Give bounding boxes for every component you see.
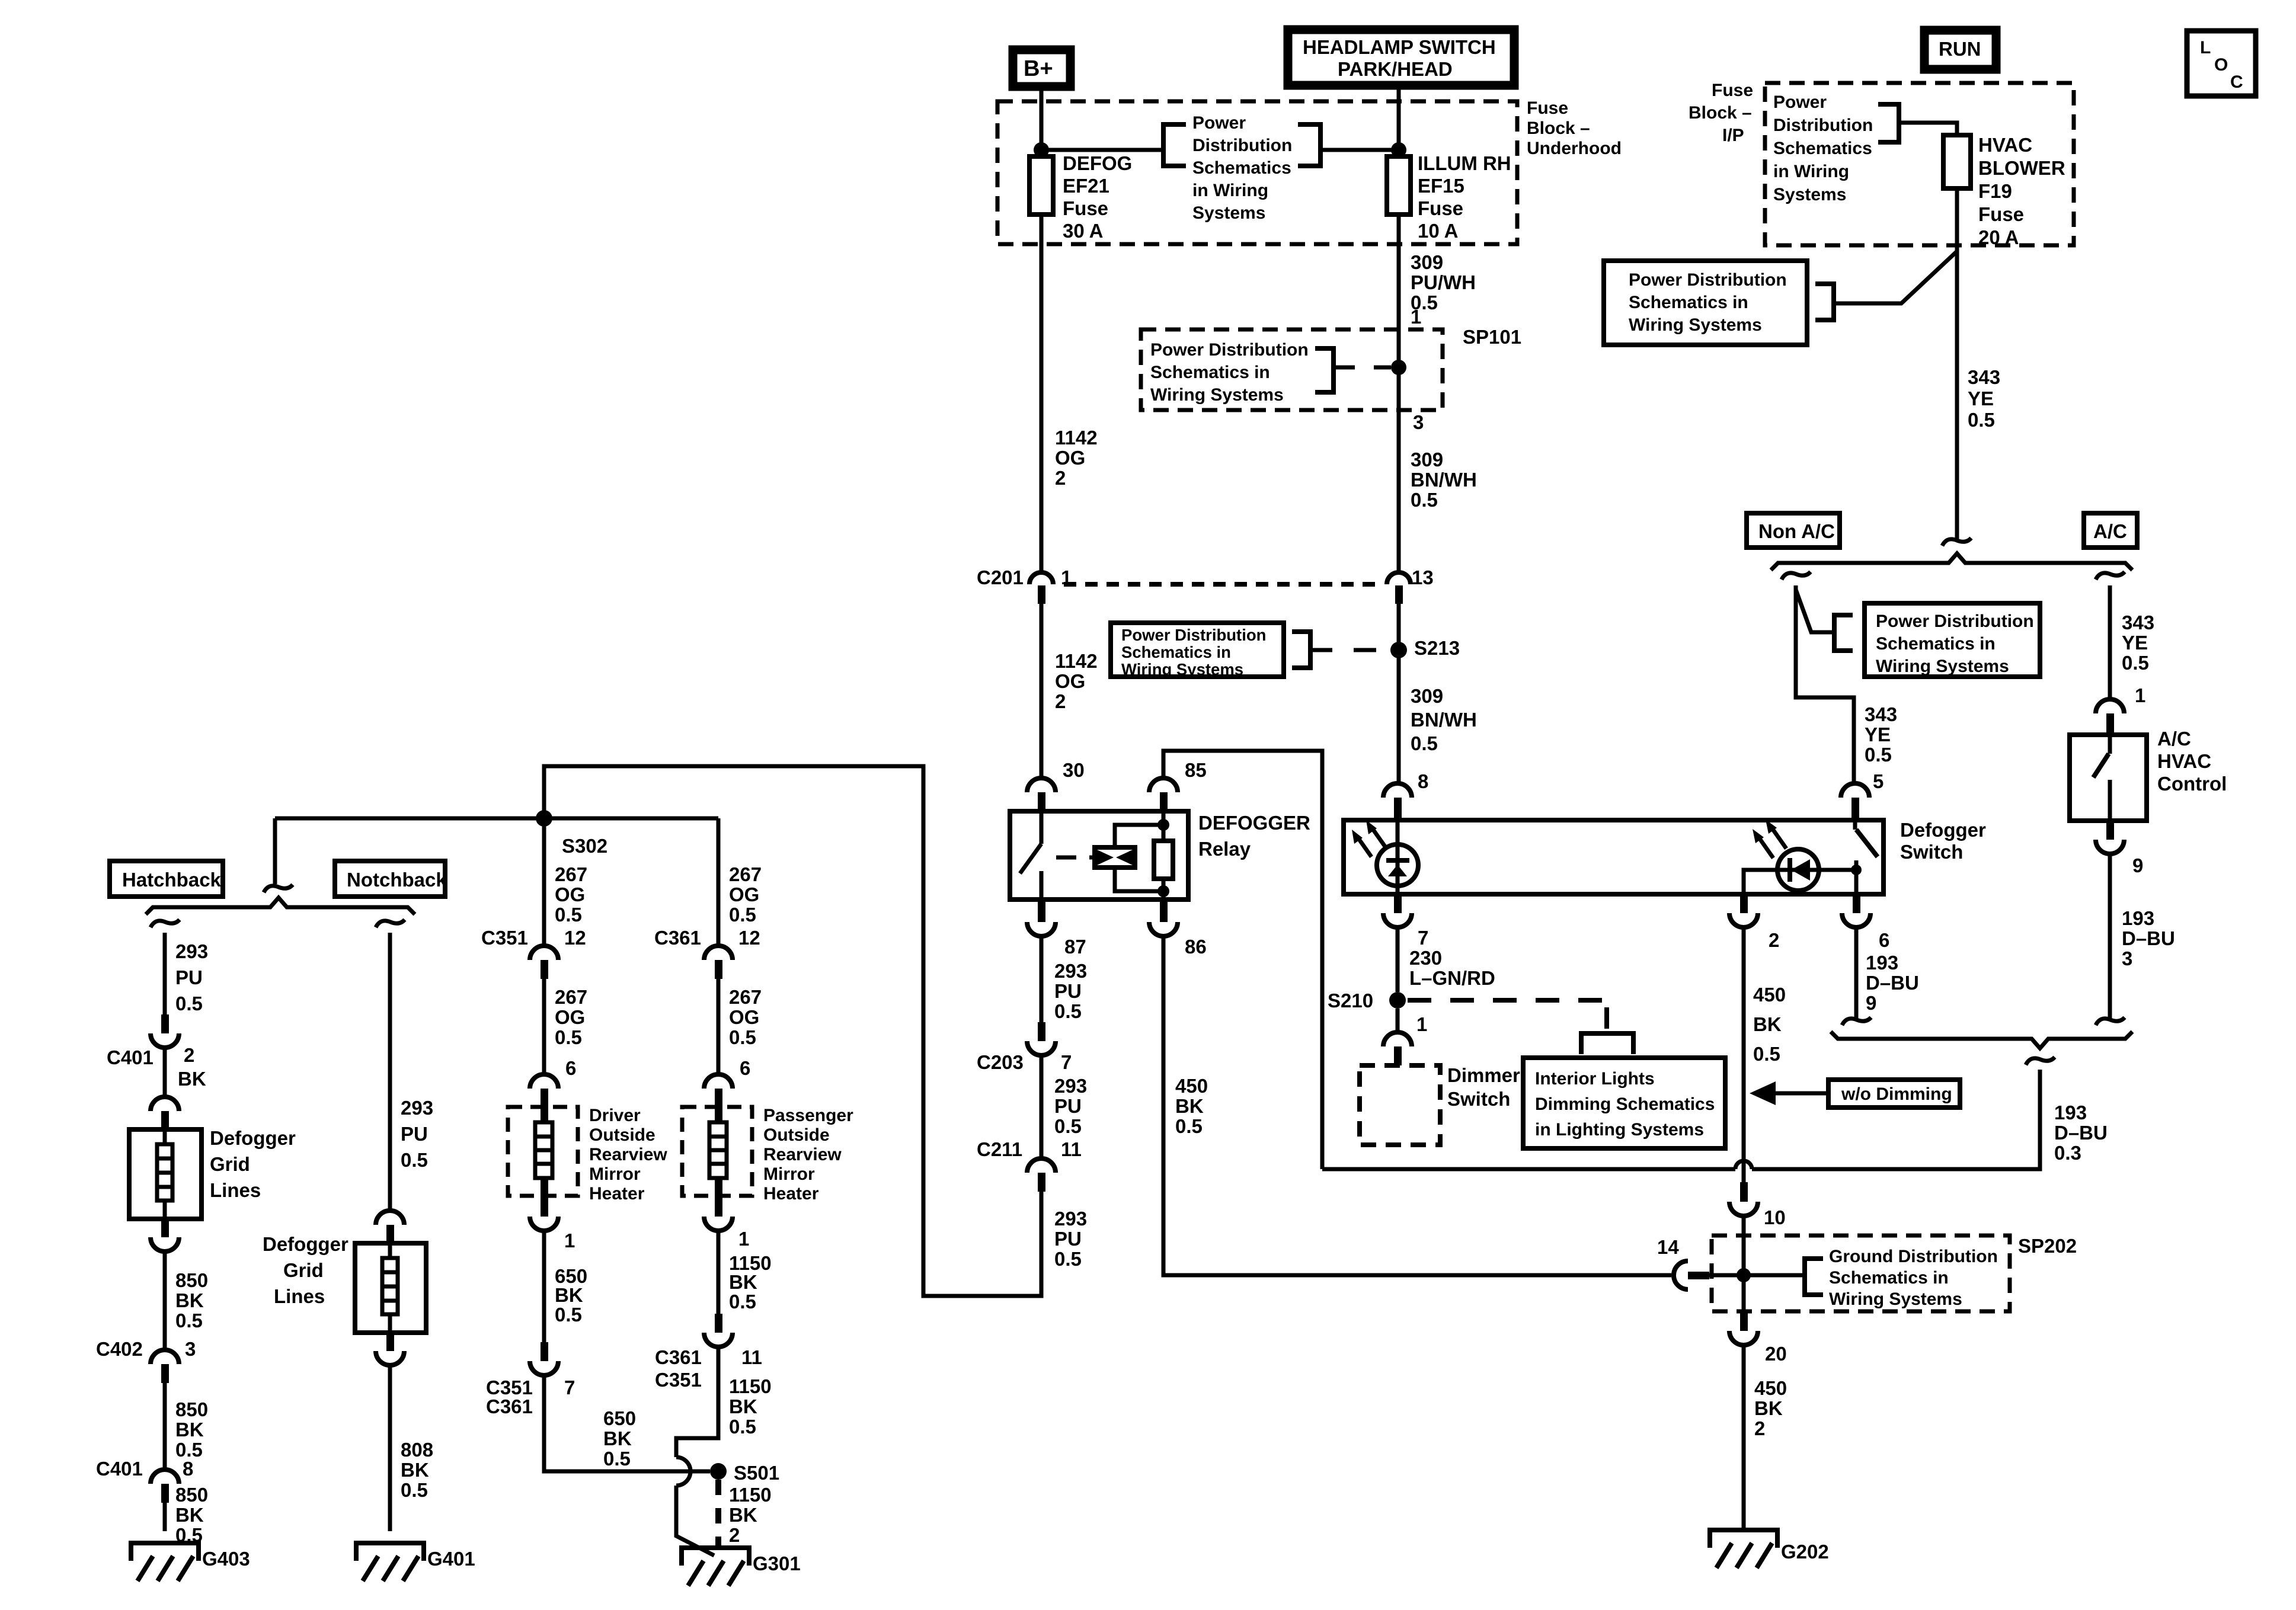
svg-text:Rearview: Rearview: [589, 1145, 667, 1164]
connector C351 pin 7: [486, 1342, 575, 1417]
svg-text:PU: PU: [1054, 1228, 1082, 1250]
node junction on B+ feed: [1034, 142, 1049, 158]
svg-text:PARK/HEAD: PARK/HEAD: [1338, 58, 1453, 80]
svg-text:2: 2: [1055, 690, 1066, 712]
svg-text:G202: G202: [1781, 1541, 1829, 1563]
svg-text:OG: OG: [1055, 670, 1085, 692]
connector hatchback grid top: [151, 1097, 179, 1131]
svg-text:Outside: Outside: [763, 1125, 830, 1145]
power distribution reference box (non A/C): [1865, 603, 2040, 677]
connector relay pin 87: [1027, 900, 1086, 958]
svg-text:S210: S210: [1328, 990, 1373, 1012]
reference bracket S213: [1292, 632, 1310, 668]
connector pin 7 defogger switch: [1383, 894, 1428, 949]
svg-text:BK: BK: [175, 1504, 204, 1526]
wire 267 OG 0.5 driver segment 2: [544, 979, 587, 1074]
svg-text:Schematics: Schematics: [1192, 158, 1291, 178]
connector C201 pin 13: [1387, 566, 1434, 604]
svg-text:Interior Lights: Interior Lights: [1535, 1069, 1655, 1089]
dimmer switch dashed box: [1360, 1064, 1520, 1145]
svg-text:0.5: 0.5: [729, 1291, 756, 1313]
svg-text:293: 293: [175, 940, 208, 962]
wire 293 PU 0.5 hatchback segment: [165, 933, 208, 1014]
svg-text:30 A: 30 A: [1063, 220, 1103, 242]
A/C HVAC control box: [2070, 728, 2227, 821]
svg-text:DEFOGGER: DEFOGGER: [1198, 812, 1310, 834]
svg-text:5: 5: [1873, 770, 1884, 792]
svg-text:3: 3: [2122, 948, 2132, 969]
svg-text:RUN: RUN: [1939, 38, 1981, 60]
wire end curl above hatchback brace: [264, 885, 293, 892]
svg-text:C361: C361: [654, 927, 701, 949]
svg-text:S302: S302: [562, 835, 607, 857]
svg-text:Dimming Schematics: Dimming Schematics: [1535, 1094, 1715, 1114]
svg-text:Fuse: Fuse: [1527, 98, 1568, 118]
connector pin 9 A/C HVAC control: [2096, 821, 2143, 876]
wire relay 86 to SP202: [1163, 936, 1671, 1275]
svg-text:BK: BK: [401, 1459, 429, 1481]
A/C HVAC control switch: [2093, 735, 2110, 821]
connector C402 pin 3: [96, 1338, 196, 1383]
svg-text:Schematics in: Schematics in: [1629, 293, 1748, 312]
wire start curl merged 193: [2026, 1057, 2055, 1065]
svg-text:9: 9: [2132, 854, 2143, 876]
node A/C: [2084, 513, 2137, 548]
wire 650 BK 0.5 label (S501): [603, 1407, 636, 1470]
svg-text:PU: PU: [1054, 980, 1082, 1002]
svg-text:G401: G401: [427, 1548, 475, 1570]
svg-text:Defogger: Defogger: [1900, 819, 1986, 841]
hatchback defogger grid lines box: [129, 1127, 296, 1219]
power distribution reference box (S213): [1111, 623, 1284, 678]
node Notchback: [335, 861, 447, 897]
ground distribution reference label: [1829, 1247, 1998, 1309]
wire 343 YE 0.5 A/C drop: [2110, 585, 2154, 699]
arrow w/o dimming: [1750, 1081, 1828, 1105]
driver outside rearview mirror heater box: [508, 1106, 667, 1204]
connector passenger heater pin 1: [704, 1178, 749, 1250]
svg-text:Schematics in: Schematics in: [1150, 363, 1270, 382]
indicator LED in switch: [1744, 849, 1856, 894]
svg-text:YE: YE: [1968, 388, 1994, 409]
svg-text:L–GN/RD: L–GN/RD: [1409, 967, 1495, 989]
wire 14 to SP202 junction: [1709, 1273, 1805, 1278]
svg-text:1: 1: [1416, 1013, 1427, 1035]
svg-text:8: 8: [1418, 770, 1428, 792]
wire 293 PU 0.5 notchback segment: [390, 933, 433, 1211]
svg-text:193: 193: [2054, 1102, 2087, 1124]
wire hop 1150 over 650: [676, 1457, 690, 1486]
svg-text:230: 230: [1409, 947, 1442, 969]
svg-text:9: 9: [1866, 992, 1876, 1014]
svg-text:C203: C203: [977, 1051, 1024, 1073]
wire junction to left bracket: [1041, 148, 1163, 152]
svg-text:0.5: 0.5: [1054, 1248, 1082, 1270]
svg-text:BK: BK: [1753, 1013, 1782, 1035]
svg-text:2: 2: [729, 1524, 740, 1546]
svg-text:D–BU: D–BU: [2122, 927, 2175, 949]
svg-text:Block –: Block –: [1689, 103, 1752, 123]
svg-text:C401: C401: [107, 1046, 154, 1068]
label Fuse Block I/P: [1689, 81, 1753, 145]
svg-text:C351: C351: [481, 927, 528, 949]
wire start curl notchback: [376, 920, 405, 927]
wire start curl Non A/C: [1782, 572, 1811, 580]
svg-text:1150: 1150: [729, 1484, 772, 1506]
splice S501: [710, 1462, 779, 1484]
svg-text:in Wiring: in Wiring: [1773, 162, 1849, 181]
svg-text:Systems: Systems: [1192, 203, 1265, 223]
svg-text:G403: G403: [202, 1548, 250, 1570]
reference bracket I/P: [1878, 104, 1899, 142]
wire 293 PU 0.5 segment relay to C203: [1041, 936, 1087, 1022]
passenger heater resistor element: [709, 1122, 727, 1178]
svg-text:SP101: SP101: [1463, 326, 1521, 348]
svg-text:O: O: [2214, 55, 2228, 75]
svg-text:850: 850: [175, 1269, 208, 1291]
svg-text:10 A: 10 A: [1418, 220, 1458, 242]
brace merge 193 wires: [1831, 1032, 2132, 1048]
svg-text:293: 293: [1054, 1075, 1087, 1097]
svg-text:A/C: A/C: [2093, 520, 2127, 542]
svg-text:Underhood: Underhood: [1527, 139, 1622, 158]
svg-text:Power Distribution: Power Distribution: [1150, 340, 1309, 360]
svg-text:Defogger: Defogger: [210, 1127, 296, 1149]
svg-text:Schematics: Schematics: [1773, 139, 1872, 158]
svg-text:Driver: Driver: [589, 1106, 641, 1125]
svg-text:Systems: Systems: [1773, 185, 1846, 204]
splice SP202 junction: [1737, 1268, 1751, 1282]
wire 850 BK 0.5 segment 1: [165, 1251, 208, 1350]
svg-text:BK: BK: [1175, 1095, 1204, 1117]
node SP101 junction: [1391, 360, 1406, 375]
svg-text:Mirror: Mirror: [763, 1164, 815, 1184]
svg-text:S213: S213: [1414, 637, 1460, 659]
relay switch contact: [1020, 811, 1041, 900]
relay internal node top: [1157, 819, 1169, 831]
svg-text:Control: Control: [2157, 773, 2227, 795]
splice S210: [1328, 990, 1406, 1012]
svg-text:0.5: 0.5: [1411, 732, 1438, 754]
wire S302 to hatchback brace: [273, 818, 277, 884]
svg-text:C211: C211: [977, 1138, 1022, 1160]
fuse block I/P dashed box: [1765, 83, 2074, 245]
svg-text:D–BU: D–BU: [1866, 972, 1919, 994]
splice SP202 dashed box: [1712, 1235, 2010, 1311]
svg-text:193: 193: [2122, 907, 2154, 929]
svg-text:Distribution: Distribution: [1192, 136, 1292, 155]
svg-text:Notchback: Notchback: [347, 869, 447, 891]
svg-text:12: 12: [564, 927, 586, 949]
svg-text:Relay: Relay: [1198, 838, 1251, 860]
reference bracket SP101: [1315, 348, 1334, 392]
relay resistor: [1154, 841, 1173, 879]
svg-text:Passenger: Passenger: [763, 1106, 853, 1125]
svg-text:Schematics in: Schematics in: [1121, 643, 1231, 661]
svg-text:0.5: 0.5: [1753, 1043, 1780, 1065]
svg-text:10: 10: [1764, 1206, 1786, 1228]
connector relay pin 86: [1149, 900, 1207, 958]
svg-text:Power: Power: [1192, 113, 1246, 133]
svg-text:14: 14: [1657, 1236, 1679, 1258]
wire 808 BK 0.5 segment: [390, 1365, 433, 1531]
svg-text:87: 87: [1064, 936, 1086, 958]
connector pin 20: [1729, 1311, 1787, 1365]
svg-text:Fuse: Fuse: [1712, 81, 1753, 100]
svg-text:OG: OG: [729, 1006, 759, 1028]
svg-text:Block –: Block –: [1527, 119, 1590, 138]
svg-text:2: 2: [1055, 467, 1066, 489]
wire 230 L-GN/RD segment: [1398, 927, 1495, 992]
svg-text:D–BU: D–BU: [2054, 1122, 2108, 1144]
svg-text:C201: C201: [977, 566, 1024, 588]
svg-text:PU: PU: [175, 966, 203, 988]
svg-text:BK: BK: [729, 1271, 757, 1293]
ground G403: [131, 1543, 250, 1581]
svg-text:BK: BK: [729, 1504, 757, 1526]
wire C401 to grid connector: [163, 1048, 167, 1097]
svg-text:in Wiring: in Wiring: [1192, 181, 1268, 200]
ground G301: [682, 1548, 801, 1586]
wire start curl hatchback: [151, 920, 180, 927]
node B+: [1013, 50, 1070, 87]
svg-text:Ground Distribution: Ground Distribution: [1829, 1247, 1998, 1266]
wire 650 BK to S501: [544, 1375, 710, 1471]
svg-text:309: 309: [1411, 449, 1443, 470]
reference bracket SP202: [1805, 1259, 1823, 1295]
connector C351 pin 12: [481, 927, 586, 979]
wire 193 D-BU 3 segment: [2110, 854, 2175, 1018]
wire B+ to fuse block: [1040, 87, 1044, 156]
svg-text:Dimmer: Dimmer: [1447, 1064, 1520, 1086]
illumination arrows: [1352, 820, 1386, 857]
svg-text:Mirror: Mirror: [589, 1164, 641, 1184]
svg-text:OG: OG: [555, 1006, 585, 1028]
svg-text:C361: C361: [655, 1346, 702, 1368]
svg-text:Grid: Grid: [283, 1259, 324, 1281]
svg-text:20 A: 20 A: [1978, 226, 2019, 248]
reference bracket (right box): [1815, 284, 1834, 320]
svg-text:PU/WH: PU/WH: [1411, 271, 1476, 293]
label Fuse Block Underhood: [1527, 98, 1622, 158]
svg-text:SP202: SP202: [2018, 1235, 2077, 1257]
svg-text:0.5: 0.5: [1054, 1000, 1082, 1022]
svg-text:Wiring Systems: Wiring Systems: [1829, 1289, 1962, 1309]
svg-text:808: 808: [401, 1439, 433, 1461]
wire start curl A/C: [2096, 572, 2125, 580]
connector pin 5 defogger switch: [1841, 770, 1884, 820]
svg-text:in Lighting Systems: in Lighting Systems: [1535, 1120, 1704, 1140]
wire 650 BK 0.5 segment: [544, 1231, 587, 1342]
fuse F19 HVAC BLOWER 20A: [1943, 134, 2065, 248]
wire 267 OG 0.5 driver segment 1: [544, 818, 587, 946]
wire headlamp switch to fuse: [1397, 85, 1401, 156]
wire 343 YE 0.5 segment: [1968, 366, 2000, 431]
passenger outside rearview mirror heater box: [682, 1106, 853, 1204]
svg-text:L: L: [2200, 38, 2211, 57]
node junction on ILLUM feed: [1391, 142, 1406, 158]
label power distribution schematics (SP101): [1150, 340, 1309, 405]
svg-text:193: 193: [1866, 952, 1898, 974]
connector C211 pin 11: [977, 1138, 1082, 1192]
ground G401: [356, 1543, 475, 1581]
svg-text:0.5: 0.5: [729, 1026, 756, 1048]
svg-text:450: 450: [1754, 1377, 1787, 1399]
dashed link to S213: [1310, 648, 1376, 652]
svg-text:EF15: EF15: [1418, 175, 1464, 197]
relay internal wires: [1162, 811, 1166, 900]
dashed link bracket to SP101 splice: [1334, 366, 1391, 370]
svg-text:6: 6: [740, 1057, 750, 1079]
svg-text:Wiring Systems: Wiring Systems: [1150, 385, 1284, 405]
connector pin 2 defogger switch: [1729, 894, 1779, 951]
svg-text:BK: BK: [178, 1068, 206, 1090]
LOC legend box: [2187, 31, 2256, 96]
connector C361 pin 11: [655, 1314, 762, 1391]
svg-text:850: 850: [175, 1484, 208, 1506]
svg-text:Lines: Lines: [274, 1285, 325, 1307]
wire 309 PU/WH 0.5 segment pin 1: [1399, 215, 1476, 329]
svg-text:267: 267: [555, 986, 587, 1008]
svg-text:C351: C351: [655, 1369, 702, 1391]
wire 1142 OG 2 lower segment: [1041, 604, 1098, 778]
connector pin 10: [1729, 1182, 1786, 1228]
connector pin 6 defogger switch: [1842, 894, 1889, 951]
connector relay pin 30: [1027, 759, 1085, 811]
svg-text:C361: C361: [486, 1395, 533, 1417]
svg-text:293: 293: [1054, 960, 1087, 982]
connector relay pin 85: [1149, 759, 1207, 811]
svg-text:267: 267: [729, 986, 762, 1008]
svg-text:Switch: Switch: [1447, 1088, 1510, 1110]
wire 450 BK 2 segment: [1744, 1345, 1787, 1529]
connector passenger heater pin 6: [704, 1057, 750, 1122]
dashed wire 1150 BK 2 to ground: [718, 1480, 772, 1548]
svg-text:OG: OG: [729, 884, 759, 905]
connector pin 14: [1657, 1236, 1709, 1289]
svg-text:w/o Dimming: w/o Dimming: [1841, 1084, 1952, 1104]
svg-text:S501: S501: [734, 1462, 779, 1484]
switch illumination LED (photo symbol): [1377, 820, 1418, 894]
wire 309 BN/WH 0.5 segment pin 8: [1411, 685, 1477, 754]
dashed wire S210 to interior lights bracket: [1408, 1000, 1607, 1029]
svg-text:Grid: Grid: [210, 1153, 250, 1175]
wire 293 PU 0.5 segment C211 to loop: [544, 766, 1087, 1296]
svg-text:Power: Power: [1773, 92, 1827, 112]
svg-text:0.5: 0.5: [175, 993, 203, 1014]
svg-text:G301: G301: [753, 1553, 801, 1574]
wire 1150 BK to ground joint: [676, 1486, 714, 1555]
node Hatchback: [110, 861, 223, 897]
wire bracket to HVAC fuse: [1899, 123, 1957, 135]
relay internal node bottom: [1157, 885, 1169, 897]
wire Non A/C drop: [1796, 585, 1854, 783]
wire 293 PU 0.5 segment C203 to C211: [1041, 1055, 1087, 1158]
wire 850 BK 0.5 segment 3: [165, 1484, 208, 1546]
wire S210 to dimmer switch: [1396, 1009, 1400, 1032]
notchback grid resistor element: [382, 1243, 398, 1333]
svg-text:293: 293: [1054, 1208, 1087, 1230]
relay coil link dashes: [1056, 856, 1095, 860]
connector C361 pin 12: [654, 927, 760, 979]
svg-text:BN/WH: BN/WH: [1411, 469, 1477, 491]
splice S302: [536, 810, 607, 857]
w/o Dimming box: [1828, 1080, 1960, 1108]
svg-text:C401: C401: [96, 1458, 143, 1480]
svg-text:13: 13: [1412, 566, 1434, 588]
svg-text:Outside: Outside: [589, 1125, 655, 1145]
svg-text:6: 6: [565, 1057, 576, 1079]
svg-text:0.5: 0.5: [1411, 489, 1438, 511]
svg-text:7: 7: [1418, 927, 1428, 949]
svg-text:OG: OG: [555, 884, 585, 905]
reference bracket interior lights: [1581, 1033, 1633, 1054]
fuse block underhood dashed box: [997, 101, 1517, 244]
svg-text:I/P: I/P: [1722, 126, 1744, 145]
connector C401 pin 2: [107, 1014, 206, 1090]
svg-text:7: 7: [564, 1377, 575, 1398]
svg-text:0.5: 0.5: [555, 1026, 582, 1048]
svg-text:3: 3: [1413, 411, 1424, 433]
svg-text:267: 267: [729, 863, 762, 885]
interior lights dimming reference box: [1523, 1058, 1725, 1148]
svg-text:Fuse: Fuse: [1063, 197, 1108, 219]
ground G202: [1710, 1530, 1829, 1568]
svg-text:Wiring Systems: Wiring Systems: [1121, 660, 1243, 678]
wire pin10 to SP202: [1742, 1216, 1746, 1275]
connector hatchback grid bottom: [151, 1219, 179, 1251]
brace split hatchback/notchback: [146, 898, 415, 914]
svg-text:Schematics in: Schematics in: [1876, 634, 1996, 654]
wire bracket to ILLUM feed: [1320, 148, 1399, 152]
svg-text:Wiring Systems: Wiring Systems: [1629, 315, 1762, 335]
hatchback grid resistor element: [157, 1129, 172, 1219]
wire 193 D-BU 9 segment: [1856, 927, 1919, 1018]
label power distribution schematics (I/P): [1773, 92, 1873, 204]
svg-text:309: 309: [1411, 251, 1443, 273]
svg-text:2: 2: [1754, 1417, 1765, 1439]
connector notchback grid bottom: [376, 1333, 404, 1365]
connector C203 pin 7: [977, 1022, 1072, 1073]
svg-text:OG: OG: [1055, 447, 1085, 469]
wire 193 D-BU 0.3 segment: [1752, 1070, 2108, 1169]
wire break curl above brace: [1942, 538, 1971, 546]
connector pin 1 A/C HVAC control: [2096, 684, 2145, 736]
connector pin 1 dimmer switch: [1383, 1013, 1427, 1065]
wire through SP101: [1397, 329, 1401, 410]
wire 267 OG 0.5 passenger segment 2: [718, 979, 762, 1074]
svg-text:343: 343: [2122, 612, 2154, 633]
svg-text:0.5: 0.5: [555, 1304, 582, 1326]
svg-text:0.5: 0.5: [401, 1479, 428, 1501]
svg-text:Wiring Systems: Wiring Systems: [1876, 657, 2009, 676]
svg-text:ILLUM RH: ILLUM RH: [1418, 152, 1511, 174]
reference bracket non A/C: [1834, 615, 1853, 651]
wire 343 YE 0.5 non A/C labels: [1865, 703, 1897, 766]
svg-text:BK: BK: [1754, 1397, 1783, 1419]
svg-text:BK: BK: [603, 1427, 632, 1449]
svg-text:Power Distribution: Power Distribution: [1629, 270, 1787, 290]
svg-text:11: 11: [1061, 1138, 1082, 1160]
indicator LED arrows: [1753, 820, 1786, 858]
svg-text:450: 450: [1175, 1075, 1208, 1097]
svg-text:1: 1: [1411, 306, 1421, 328]
relay coil wires: [1115, 825, 1163, 891]
svg-text:3: 3: [185, 1338, 196, 1360]
wire 267 OG 0.5 passenger segment 1: [718, 818, 762, 946]
fuse EF21 DEFOG 30A: [1029, 152, 1132, 242]
defogger switch box: [1344, 819, 1986, 894]
